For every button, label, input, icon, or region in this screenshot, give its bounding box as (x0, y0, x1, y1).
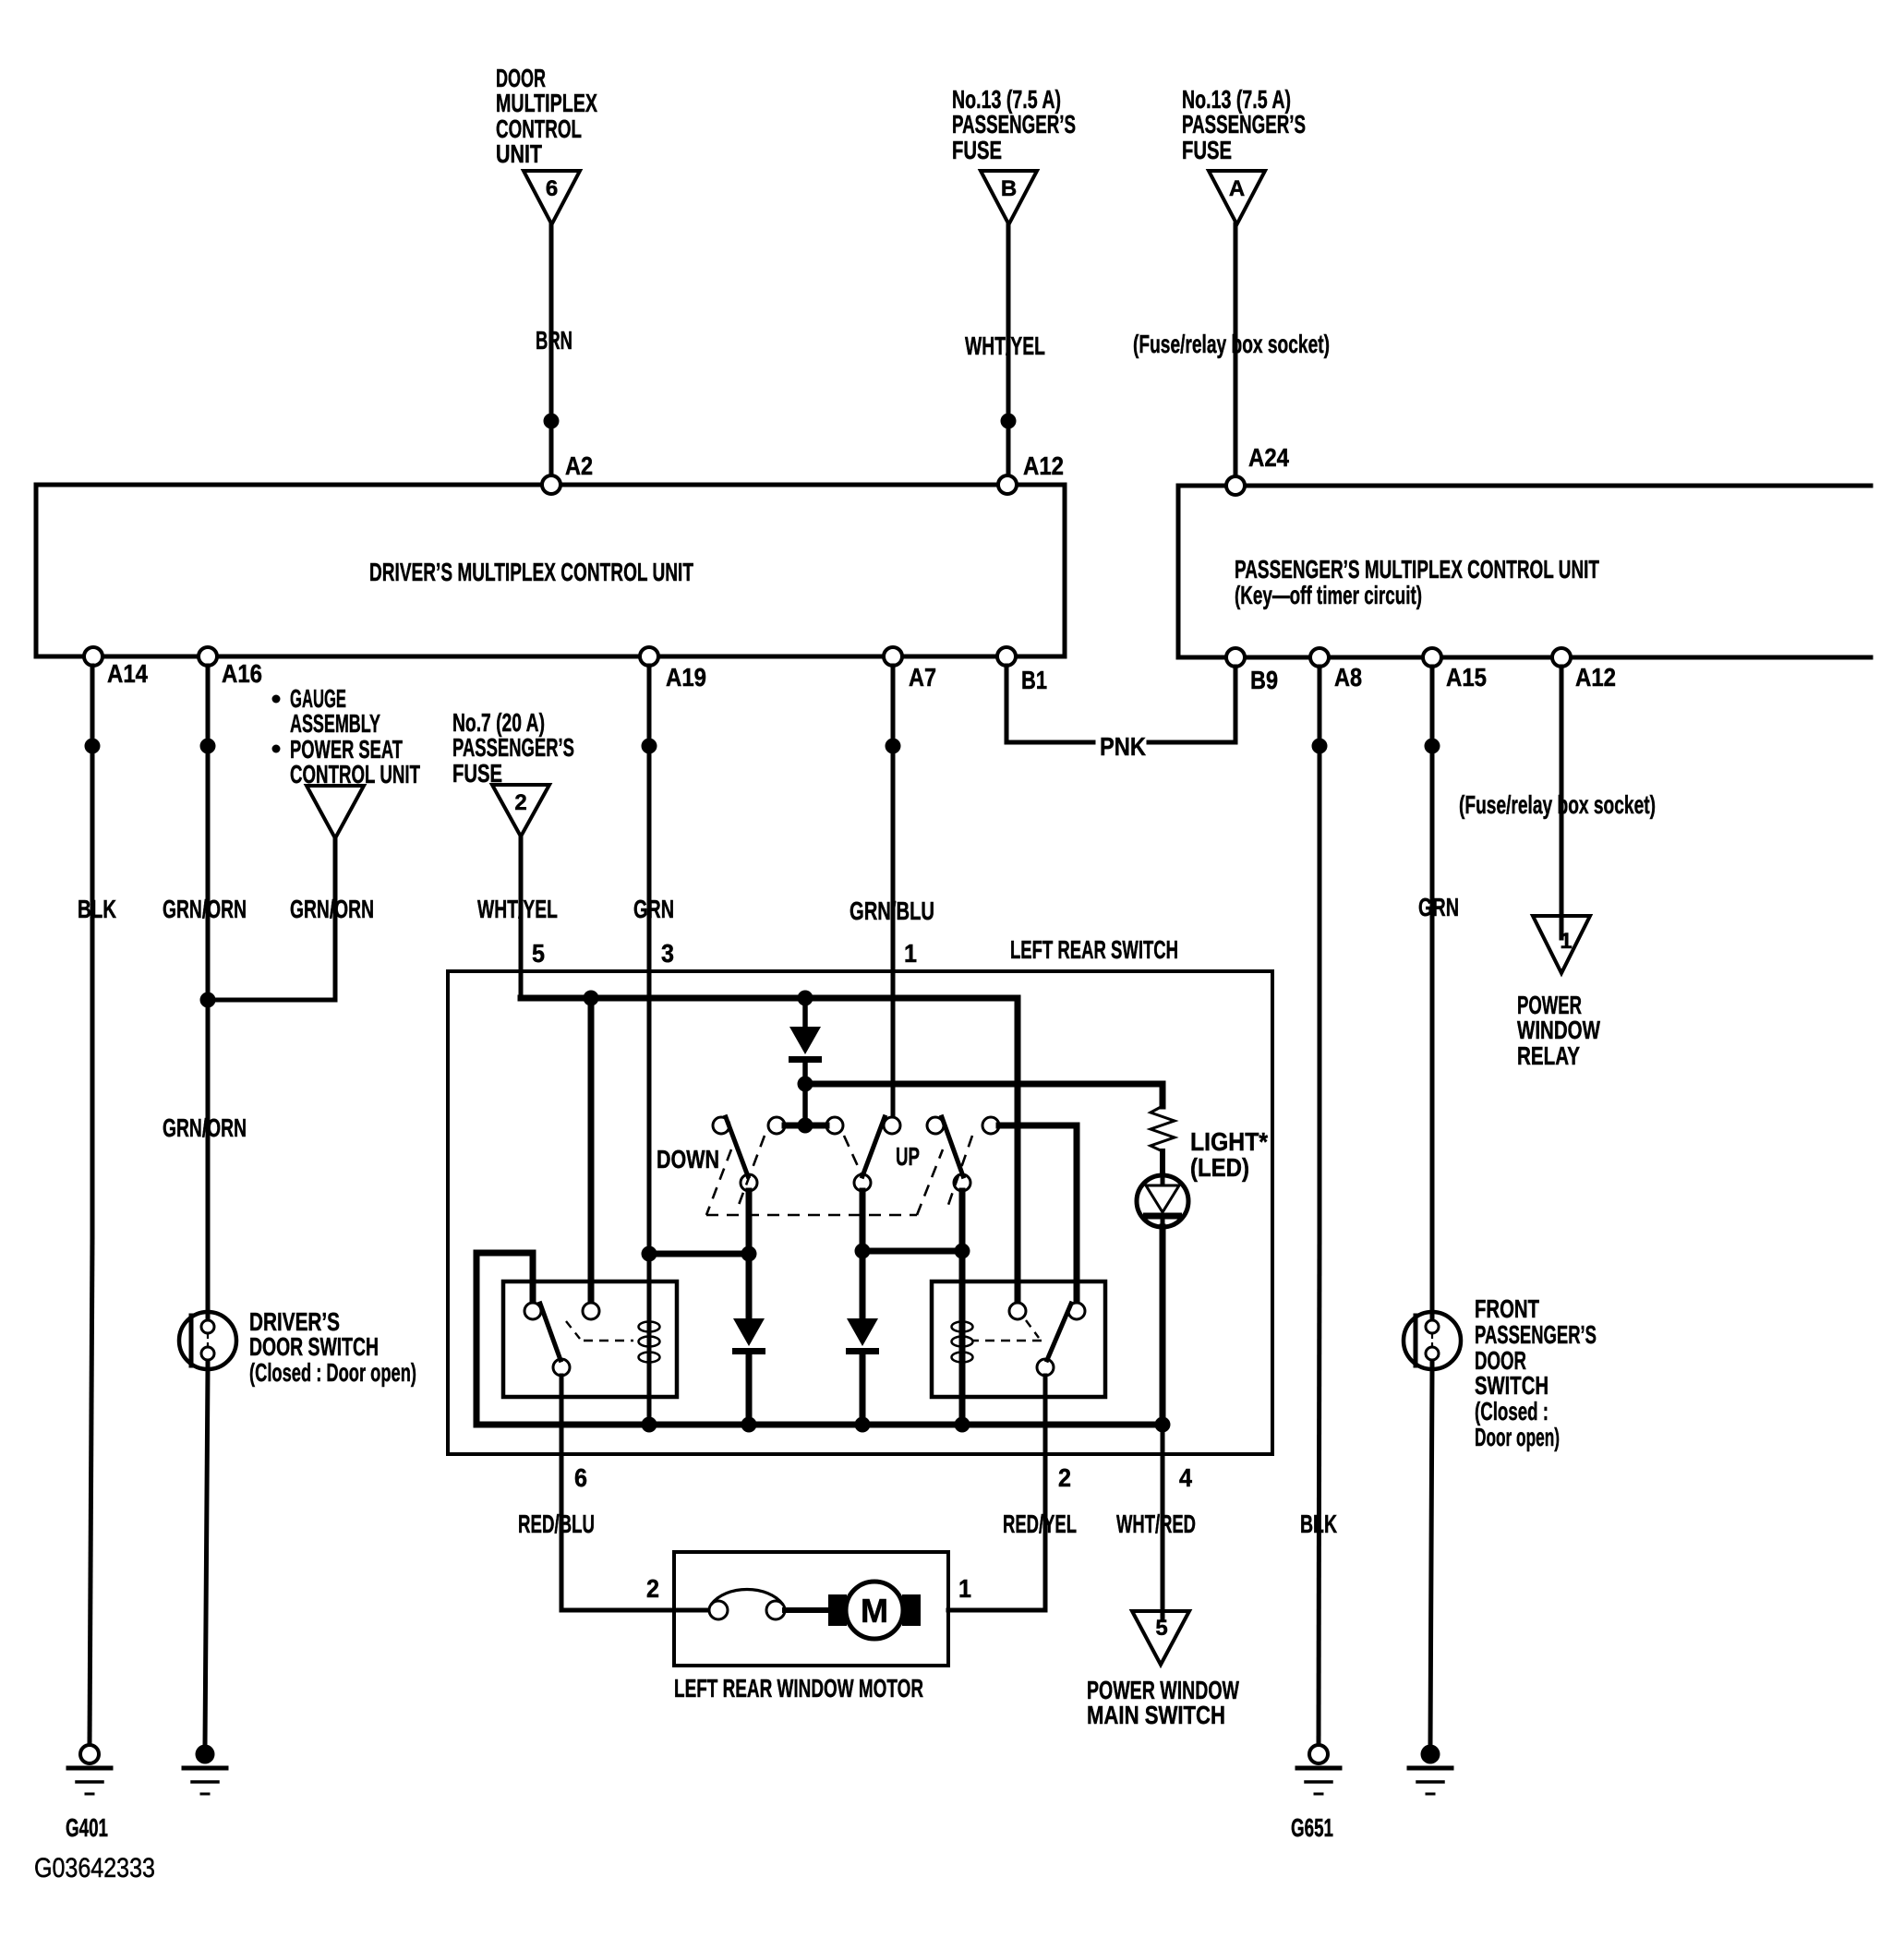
junction dot on BLK wire (85, 739, 101, 754)
wire GRN from A19 through relay coil to bottom bus (647, 666, 652, 1425)
junction dot UP common (855, 1244, 871, 1259)
svg-text:4: 4 (1179, 1463, 1192, 1492)
wire PNK left segment (1006, 740, 1093, 745)
wire GRN/BLU from A7 to UP contact (891, 666, 896, 1118)
svg-text:A12: A12 (1023, 451, 1064, 480)
svg-text:DRIVER’S MULTIPLEX CONTROL UNI: DRIVER’S MULTIPLEX CONTROL UNIT (369, 558, 693, 586)
svg-text:(Closed :: (Closed : (1475, 1397, 1549, 1426)
terminal B1 (997, 647, 1016, 666)
wire from diode to switch center (802, 1063, 808, 1125)
svg-text:WINDOW: WINDOW (1517, 1016, 1600, 1044)
ground (driver door switch, filled) (196, 1745, 215, 1764)
front passenger's door switch (1404, 1312, 1461, 1369)
wire bus down to right relay contact (1015, 998, 1021, 1303)
relay (right, up) box (932, 1281, 1105, 1397)
svg-text:BRN: BRN (536, 326, 572, 355)
junction dot on BRN wire (544, 414, 560, 429)
svg-text:1: 1 (958, 1574, 971, 1603)
terminal A19 (640, 647, 658, 666)
diode D1 (center feed) (789, 1027, 821, 1054)
wire B9 down (PNK) (1234, 667, 1238, 742)
wire UP common to switch3 common/coil (862, 1248, 962, 1255)
svg-text:6: 6 (546, 176, 558, 201)
svg-text:DOOR SWITCH: DOOR SWITCH (249, 1332, 379, 1361)
svg-text:G401: G401 (66, 1813, 108, 1842)
svg-text:2: 2 (514, 790, 526, 815)
wire BLK from A14 (90, 666, 95, 1237)
contact switch3 common (954, 1174, 970, 1191)
contact DOWN right (center bar left) (768, 1117, 785, 1134)
wire WHT/YEL (fuse 2 to pin 5) (519, 836, 524, 998)
junction dot GRN/DOWN-common (642, 1246, 657, 1262)
svg-text:RED/BLU: RED/BLU (518, 1510, 595, 1538)
wire GRN/ORN to ground (205, 1369, 208, 1745)
svg-text:2: 2 (1058, 1463, 1071, 1492)
svg-text:GRN/ORN: GRN/ORN (163, 1113, 247, 1142)
contact switch3 left (927, 1117, 944, 1134)
terminal A16 (199, 647, 217, 666)
ground G401 (80, 1745, 99, 1763)
junction dot diode output (798, 1077, 813, 1092)
switch arm UP (862, 1117, 885, 1176)
wire stub into triangle 5 (1161, 1610, 1165, 1618)
junction dot DOWN common (741, 1246, 757, 1262)
svg-text:CONTROL UNIT: CONTROL UNIT (290, 760, 420, 788)
junction dot switch3 common branch (955, 1244, 970, 1259)
svg-text:3: 3 (661, 939, 674, 968)
right relay contact NC (1009, 1303, 1026, 1319)
svg-text:(Key—off timer circuit): (Key—off timer circuit) (1235, 581, 1422, 609)
junction dot on GRN/ORN wire (200, 739, 216, 754)
right relay arm (1047, 1304, 1071, 1360)
svg-text:GRN/ORN: GRN/ORN (290, 895, 374, 923)
svg-text:SWITCH: SWITCH (1475, 1371, 1549, 1400)
svg-text:A15: A15 (1446, 663, 1487, 692)
connector triangle 6 (door multiplex control unit) (524, 171, 580, 224)
junction dot bottom bus (955, 1417, 970, 1433)
svg-text:A: A (1229, 176, 1245, 201)
right relay linkage dashes (1026, 1320, 1039, 1338)
svg-text:MAIN SWITCH: MAIN SWITCH (1087, 1701, 1225, 1729)
svg-text:A16: A16 (222, 659, 262, 688)
junction dot on GRN wire (642, 739, 657, 754)
svg-text:FUSE: FUSE (1182, 136, 1232, 164)
svg-text:LEFT REAR SWITCH: LEFT REAR SWITCH (1010, 935, 1178, 964)
wire D2 to bottom bus (746, 1355, 753, 1425)
wire to LIGHT(LED) resistor (805, 1081, 1163, 1088)
svg-text:FRONT: FRONT (1475, 1294, 1539, 1323)
wire B1 down (PNK) (1005, 666, 1009, 742)
driver's door switch (179, 1312, 236, 1369)
svg-text:A14: A14 (107, 659, 148, 688)
fuse triangle A (1209, 171, 1265, 224)
LED LIGHT* lamp (1137, 1175, 1188, 1227)
svg-text:B9: B9 (1250, 666, 1278, 694)
wire internal bus (pin 5 feed) (521, 995, 1018, 1002)
hook wire: left relay NC contact to bottom bus left end (476, 1253, 533, 1425)
contact UP right (GRN/BLU) (884, 1117, 900, 1134)
svg-text:A7: A7 (909, 663, 936, 692)
fuse triangle B (981, 171, 1037, 224)
diode D2 (DOWN) (733, 1318, 765, 1346)
svg-text:A19: A19 (666, 663, 706, 692)
motor internal breaker link (709, 1601, 728, 1619)
svg-text:(Fuse/relay box socket): (Fuse/relay box socket) (1459, 790, 1656, 819)
svg-text:B1: B1 (1021, 666, 1047, 694)
svg-text:WHT/YEL: WHT/YEL (477, 895, 558, 923)
wire D3 to bottom bus (860, 1355, 866, 1425)
wire (fuse A to A24, fuse/relay box socket) (1234, 224, 1238, 486)
wire BLK from A8 (1318, 667, 1322, 1237)
svg-text:WHT/RED: WHT/RED (1116, 1510, 1196, 1538)
wire GRN from A15 (1430, 667, 1435, 1312)
wire resistor to LED (1160, 1151, 1165, 1176)
wire GRN/ORN from A16 (206, 666, 211, 1312)
wire down to right relay contact (1074, 1125, 1080, 1303)
svg-text:PNK: PNK (1100, 732, 1146, 761)
svg-text:RED/YEL: RED/YEL (1003, 1510, 1077, 1538)
wire branch to gauge assembly triangle (208, 998, 335, 1003)
left relay contact NO (583, 1303, 599, 1319)
wire to top diode (802, 998, 808, 1027)
contact DOWN left (713, 1117, 729, 1134)
box: DRIVER'S MULTIPLEX CONTROL UNIT (36, 485, 1065, 656)
connector triangle (gauge assembly / power seat control unit) (307, 786, 364, 838)
svg-text:LIGHT*: LIGHT* (1190, 1127, 1268, 1156)
svg-text:PASSENGER’S: PASSENGER’S (1182, 110, 1306, 138)
svg-text:DOWN: DOWN (657, 1145, 719, 1173)
relay (left, down) box (503, 1281, 677, 1397)
wire GRN to DOWN common (649, 1251, 749, 1257)
wire WHT/RED pin 4 (1161, 1425, 1165, 1610)
wire from gauge triangle down (333, 838, 338, 1000)
wire to power window relay (1560, 667, 1564, 916)
svg-text:PASSENGER’S MULTIPLEX CONTROL: PASSENGER’S MULTIPLEX CONTROL UNIT (1235, 555, 1599, 583)
svg-text:LEFT REAR WINDOW MOTOR: LEFT REAR WINDOW MOTOR (674, 1674, 923, 1702)
switch arm DOWN (726, 1117, 748, 1176)
left relay linkage dashes (566, 1321, 580, 1339)
wire BRN (triangle 6 to A2) (549, 224, 554, 485)
terminal A12 (passenger box) (1552, 648, 1571, 667)
junction dot bottom bus (1155, 1417, 1171, 1433)
svg-text:M: M (861, 1592, 888, 1630)
svg-text:GRN: GRN (1418, 893, 1459, 921)
junction dot on GRN (A15) (1425, 739, 1440, 754)
connector triangle 1 (power window relay) (1533, 916, 1590, 973)
svg-text:(Fuse/relay box socket): (Fuse/relay box socket) (1133, 330, 1330, 358)
svg-text:MULTIPLEX: MULTIPLEX (496, 89, 597, 117)
terminal A15 (1423, 648, 1441, 667)
junction dot bottom bus (642, 1417, 657, 1433)
svg-text:ASSEMBLY: ASSEMBLY (290, 709, 380, 738)
right relay common (1037, 1359, 1054, 1376)
terminal B9 (1226, 648, 1245, 667)
terminal A24 circle (1226, 476, 1245, 495)
right relay contact NO (1068, 1303, 1085, 1319)
fuse triangle 2 (492, 785, 549, 836)
junction dot GRN/ORN branch (200, 993, 216, 1008)
wire BLK lower (1319, 1237, 1320, 1745)
svg-text:GRN: GRN (633, 895, 674, 923)
svg-text:UNIT: UNIT (496, 139, 542, 168)
svg-text:1: 1 (904, 939, 917, 968)
wire BLK lower segment (90, 1237, 92, 1745)
junction dot on BLK (A8) (1312, 739, 1328, 754)
svg-text:PASSENGER’S: PASSENGER’S (1475, 1320, 1597, 1349)
wire PNK right segment (1149, 740, 1235, 745)
wire switch3 common through right coil to bottom bus (959, 1191, 966, 1425)
svg-text:G03642333: G03642333 (34, 1853, 155, 1883)
svg-text:A2: A2 (565, 451, 593, 480)
terminal A12 (driver box top) (998, 475, 1017, 494)
box: PASSENGER'S MULTIPLEX CONTROL UNIT (1178, 484, 1871, 488)
left relay common (553, 1359, 570, 1376)
junction dot bus/diode branch (798, 991, 813, 1006)
ground (passenger door switch, filled) (1421, 1745, 1440, 1764)
wire LED to bottom bus (1160, 1227, 1166, 1425)
svg-text:6: 6 (574, 1463, 587, 1492)
wire bottom bus (476, 1422, 1163, 1428)
svg-text:A8: A8 (1334, 663, 1362, 692)
contact switch3 right (982, 1117, 999, 1134)
dashed mechanical linkage (706, 1149, 731, 1215)
junction dot bottom bus (855, 1417, 871, 1433)
svg-text:FUSE: FUSE (952, 136, 1002, 164)
connector triangle 5 (power window main switch) (1132, 1611, 1189, 1665)
box: LEFT REAR SWITCH (448, 971, 1272, 1454)
wire GRN to ground (1430, 1369, 1432, 1745)
junction dot on GRN/BLU wire (886, 739, 901, 754)
wire WHT/YEL (fuse B to A12) (1006, 224, 1011, 485)
junction dot on WHT/YEL wire (1001, 414, 1017, 429)
svg-text:(Closed : Door open): (Closed : Door open) (249, 1358, 416, 1387)
svg-text:B: B (1001, 176, 1017, 201)
wire UP common down (860, 1191, 866, 1318)
contact UP left (center bar right) (826, 1117, 843, 1134)
junction dot center bar (798, 1118, 813, 1134)
wire down to resistor (1160, 1084, 1166, 1106)
contact UP common (854, 1174, 871, 1191)
left relay contact NC (524, 1303, 541, 1319)
svg-text:BLK: BLK (78, 895, 116, 923)
svg-text:G651: G651 (1291, 1813, 1333, 1842)
wire RED/BLU pin 6 (560, 1376, 564, 1610)
ground G651 (1309, 1745, 1328, 1763)
terminal A2 (542, 475, 560, 494)
svg-text:Door open): Door open) (1475, 1423, 1560, 1451)
contact DOWN common (741, 1174, 757, 1191)
terminal A8 (1310, 648, 1329, 667)
svg-text:GRN/ORN: GRN/ORN (163, 895, 247, 923)
switch arm 3 (942, 1117, 963, 1176)
svg-text:PASSENGER’S: PASSENGER’S (452, 733, 574, 762)
terminal A7 (884, 647, 902, 666)
svg-text:A12: A12 (1575, 663, 1616, 692)
svg-text:RELAY: RELAY (1517, 1041, 1580, 1070)
bullet list: GAUGE ASSEMBLY / POWER SEAT CONTROL UNIT (272, 695, 281, 704)
svg-text:5: 5 (532, 939, 545, 968)
wire bus to left relay contact (588, 998, 595, 1303)
svg-text:UP: UP (896, 1142, 920, 1171)
svg-text:GRN/BLU: GRN/BLU (850, 896, 934, 925)
wire switch3 right contact jog (999, 1123, 1077, 1129)
left relay coil (639, 1322, 660, 1332)
wire link to motor brush (785, 1607, 828, 1613)
motor M with brushes (828, 1594, 847, 1626)
wire RED/BLU into motor pin 2 (561, 1608, 709, 1613)
terminal A14 (84, 647, 102, 666)
wire stub into triangle 1 (1560, 916, 1564, 938)
wire RED/YEL pin 2 (1043, 1376, 1048, 1610)
svg-text:(LED): (LED) (1190, 1153, 1249, 1182)
left relay arm (540, 1304, 560, 1360)
diode D3 (UP) (847, 1318, 878, 1346)
wire DOWN common down (746, 1191, 753, 1318)
wire RED/YEL into motor pin 1 (948, 1608, 1045, 1613)
junction dot bottom bus (741, 1417, 757, 1433)
resistor (LED series) (1151, 1106, 1175, 1151)
box: LEFT REAR WINDOW MOTOR (674, 1552, 948, 1666)
wire center bar between contacts (785, 1123, 826, 1129)
junction dot bus/left-relay branch (584, 991, 599, 1006)
svg-text:5: 5 (1155, 1616, 1167, 1641)
svg-text:A24: A24 (1248, 443, 1289, 472)
svg-text:PASSENGER’S: PASSENGER’S (952, 110, 1076, 138)
right relay coil (952, 1322, 973, 1332)
svg-text:1: 1 (1560, 929, 1572, 954)
svg-text:2: 2 (646, 1574, 659, 1603)
svg-text:WHT/YEL: WHT/YEL (965, 331, 1045, 360)
